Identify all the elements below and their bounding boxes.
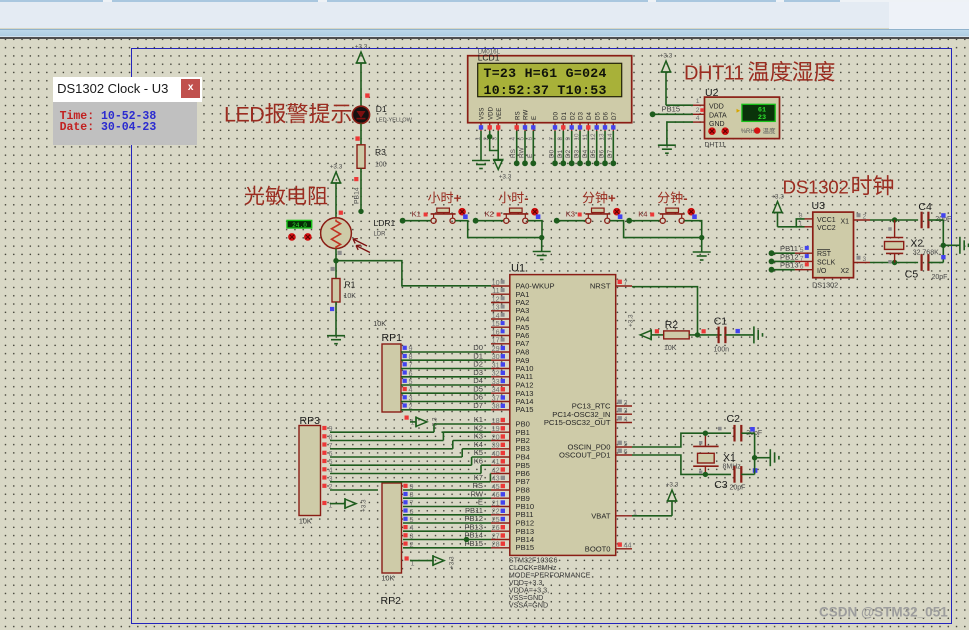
caption LED报警提示 bbox=[224, 103, 351, 127]
svg-text:VCC2: VCC2 bbox=[817, 225, 836, 232]
svg-text:RW: RW bbox=[523, 110, 530, 120]
svg-text:10:52:37 T10:53: 10:52:37 T10:53 bbox=[484, 83, 607, 98]
wire LCD VDD/VEE power bbox=[490, 131, 499, 161]
node X1 bbox=[892, 217, 897, 222]
wires K1-K7 staircase: RP3 to U1 PB0-PB7 bbox=[330, 424, 491, 490]
node LCD vdd bbox=[487, 134, 492, 139]
svg-text:PA15: PA15 bbox=[516, 405, 534, 414]
svg-text:+3.3: +3.3 bbox=[361, 499, 368, 512]
wire to ground k3k4 bbox=[701, 238, 703, 252]
wire K1 to gnd rail bbox=[455, 221, 542, 238]
node PB14 junction bbox=[358, 209, 363, 214]
schematic sheet border bbox=[131, 48, 952, 624]
LDR actuator buttons bbox=[288, 233, 312, 241]
svg-text:4: 4 bbox=[624, 414, 628, 423]
resistor R2 10K bbox=[655, 319, 689, 352]
button K4 分钟- bbox=[626, 208, 697, 224]
wire DS1302 X2 net bbox=[854, 256, 919, 263]
svg-text:LDR1: LDR1 bbox=[374, 218, 396, 228]
svg-text:D2: D2 bbox=[569, 112, 576, 120]
wires D0-D7: RP1 to U1 PA8-PA15 bbox=[401, 352, 491, 410]
svg-text:+: + bbox=[454, 190, 462, 205]
svg-text:1: 1 bbox=[329, 500, 333, 509]
svg-text:RW: RW bbox=[519, 147, 526, 158]
svg-text:VBAT: VBAT bbox=[591, 511, 611, 520]
svg-text:D5: D5 bbox=[594, 112, 601, 120]
svg-text:SCLK: SCLK bbox=[817, 260, 836, 267]
wire LCD VSS to ground bbox=[480, 131, 482, 161]
resistor R3 100 bbox=[354, 145, 387, 181]
wire OSCIN net bbox=[632, 433, 705, 447]
resistor pack RP2 bbox=[381, 482, 456, 607]
wire PB15 to DHT11 DATA bbox=[650, 105, 693, 118]
svg-text:OSCOUT_PD1: OSCOUT_PD1 bbox=[559, 451, 610, 460]
wires C2 C3 to gnd bbox=[741, 433, 770, 474]
svg-text:C4: C4 bbox=[918, 201, 932, 213]
svg-text:8: 8 bbox=[799, 212, 803, 219]
capacitor C2 20pF bbox=[718, 413, 762, 442]
resistor pack RP1 bbox=[373, 319, 438, 430]
svg-text:K1: K1 bbox=[412, 210, 421, 219]
svg-text:PB14: PB14 bbox=[353, 187, 360, 204]
ground DHT11 bbox=[658, 144, 676, 146]
svg-text:RS: RS bbox=[514, 111, 521, 120]
ground k3k4 bbox=[693, 251, 711, 253]
svg-text:RP2: RP2 bbox=[381, 595, 402, 607]
caption DHT11温度湿度 bbox=[684, 61, 835, 85]
ground DS1302 xtal bbox=[959, 237, 961, 254]
svg-text:LCD1: LCD1 bbox=[478, 53, 500, 63]
svg-text:10K: 10K bbox=[344, 293, 357, 300]
svg-text:5: 5 bbox=[800, 247, 804, 254]
capacitor C5 20pF bbox=[905, 254, 948, 281]
svg-text:D6: D6 bbox=[599, 149, 606, 158]
wire LDR to R1 and PA0 bbox=[331, 249, 492, 286]
svg-text:LDR: LDR bbox=[374, 232, 387, 238]
svg-text:+3.3: +3.3 bbox=[499, 174, 512, 181]
wire DS1302 X1 net bbox=[854, 213, 919, 220]
button K3 分钟+ bbox=[554, 208, 623, 224]
wire K2 to gnd rail bbox=[528, 221, 542, 238]
svg-text:6: 6 bbox=[800, 264, 804, 271]
ground LCD bbox=[472, 160, 490, 162]
svg-text:R1: R1 bbox=[345, 280, 356, 290]
svg-text:7: 7 bbox=[624, 278, 628, 287]
node gnd X2 bbox=[941, 243, 946, 248]
svg-text:X1: X1 bbox=[840, 218, 849, 225]
wire NRST net bbox=[632, 287, 698, 335]
svg-text:RST: RST bbox=[817, 251, 832, 258]
wire R2 to C1 bbox=[689, 329, 721, 335]
svg-text:K3: K3 bbox=[566, 210, 575, 219]
svg-text:+3.3: +3.3 bbox=[660, 53, 673, 60]
svg-text:T=23 H=61 G=024: T=23 H=61 G=024 bbox=[484, 66, 607, 81]
LCD control/data stub wires bbox=[510, 131, 616, 166]
U1 left pins PB0-PB15 bbox=[464, 415, 509, 548]
svg-text:D7: D7 bbox=[611, 112, 618, 120]
svg-text:C2: C2 bbox=[727, 413, 741, 425]
svg-text:RP1: RP1 bbox=[382, 332, 403, 344]
svg-text:E: E bbox=[531, 116, 538, 120]
wire X1 bottom to C3 bbox=[705, 473, 731, 475]
svg-text:10K: 10K bbox=[299, 517, 312, 526]
U1 left pins PA0-PA7 bbox=[491, 278, 510, 345]
wire K3 to gnd rail bbox=[610, 221, 702, 238]
svg-text:+3.3: +3.3 bbox=[628, 314, 635, 327]
svg-text:E: E bbox=[527, 154, 534, 158]
mcu U1 STM32F103C6 bbox=[509, 263, 616, 610]
svg-text:D4: D4 bbox=[582, 149, 589, 158]
ground C1 bbox=[753, 326, 755, 343]
power flag +3.3 R2 bbox=[628, 314, 664, 340]
svg-text:D5: D5 bbox=[590, 149, 597, 158]
svg-text:U1: U1 bbox=[511, 263, 525, 275]
svg-text:+3.3: +3.3 bbox=[449, 556, 456, 569]
svg-text:44: 44 bbox=[624, 541, 632, 550]
svg-text:D0: D0 bbox=[549, 149, 556, 158]
svg-text:R2: R2 bbox=[665, 319, 679, 331]
svg-text:D7: D7 bbox=[607, 149, 614, 158]
svg-text:LED: LED bbox=[224, 103, 264, 127]
svg-text:D4: D4 bbox=[586, 112, 593, 120]
svg-text:-: - bbox=[524, 190, 528, 205]
svg-text:BOOT0: BOOT0 bbox=[585, 544, 611, 553]
svg-text:6: 6 bbox=[624, 447, 628, 456]
svg-text:D1: D1 bbox=[561, 112, 568, 120]
button K2 小时- bbox=[473, 208, 541, 224]
svg-text:X2: X2 bbox=[910, 238, 923, 250]
power flag +3.3 above D1 bbox=[355, 44, 368, 107]
svg-text:100: 100 bbox=[375, 162, 387, 169]
svg-text:10K: 10K bbox=[373, 319, 386, 328]
svg-text:7: 7 bbox=[800, 255, 804, 262]
capacitor C4 20pF bbox=[918, 201, 951, 228]
svg-text:23: 23 bbox=[758, 114, 766, 122]
svg-text:DHT11: DHT11 bbox=[705, 142, 726, 149]
svg-text:C3: C3 bbox=[714, 479, 728, 491]
svg-text:NRST: NRST bbox=[590, 282, 611, 291]
ground k1k2 bbox=[533, 251, 551, 253]
node buttons gnd right bbox=[699, 235, 704, 240]
svg-text:VEE: VEE bbox=[496, 108, 503, 120]
U1 right pins bbox=[616, 278, 637, 550]
svg-text:28: 28 bbox=[492, 540, 500, 549]
svg-text:+3.3: +3.3 bbox=[355, 44, 368, 51]
svg-text:D1: D1 bbox=[376, 104, 387, 114]
U1 left pins PA8-PA15 (D0-D7) bbox=[473, 343, 510, 410]
svg-text:PC15-OSC32_OUT: PC15-OSC32_OUT bbox=[544, 418, 611, 427]
svg-text:38: 38 bbox=[492, 402, 500, 411]
svg-text:DS1302: DS1302 bbox=[812, 281, 838, 290]
svg-text:4: 4 bbox=[696, 115, 700, 122]
wire DHT11 GND bbox=[667, 122, 693, 145]
wire X1 top to C2 bbox=[705, 432, 731, 434]
svg-text:-: - bbox=[683, 190, 687, 205]
wire to ground k1k2 bbox=[541, 238, 543, 252]
svg-text:DATA: DATA bbox=[709, 113, 727, 120]
dialog DS1302 Clock - U3 bbox=[53, 77, 202, 145]
caption 分钟- bbox=[658, 190, 688, 205]
svg-text:24.0: 24.0 bbox=[292, 222, 307, 229]
svg-text:CSDN @STM32_051: CSDN @STM32_051 bbox=[819, 605, 948, 620]
svg-text:C1: C1 bbox=[714, 316, 728, 328]
node NRST RC bbox=[695, 332, 700, 337]
button K1 小时+ bbox=[400, 208, 468, 224]
crystal X1 8MHz bbox=[693, 433, 741, 474]
node buttons gnd left bbox=[539, 235, 544, 240]
led D1 LED-YELLOW bbox=[352, 93, 412, 140]
svg-text:D3: D3 bbox=[574, 149, 581, 158]
svg-text:I/O: I/O bbox=[817, 268, 827, 275]
svg-text:%RH: %RH bbox=[741, 129, 755, 135]
photoresistor LDR1 bbox=[321, 211, 396, 255]
junction on PB14 wire bbox=[464, 537, 469, 542]
rtc U3 DS1302 bbox=[799, 200, 854, 290]
svg-text:VSS: VSS bbox=[479, 108, 486, 120]
power flag +3.3 VBAT bbox=[632, 482, 679, 516]
svg-text:RS: RS bbox=[510, 149, 517, 158]
svg-text:R3: R3 bbox=[375, 147, 386, 157]
node xtal gnd bbox=[752, 455, 757, 460]
svg-text:X2: X2 bbox=[840, 268, 849, 275]
svg-text:+3.3: +3.3 bbox=[771, 193, 784, 200]
svg-text:GND: GND bbox=[709, 121, 725, 128]
resistor R1 10K bbox=[330, 279, 356, 312]
svg-text:K2: K2 bbox=[485, 210, 494, 219]
caption DS1302时钟 bbox=[783, 175, 894, 197]
capacitor C3 20pF bbox=[714, 466, 757, 491]
svg-text:10K: 10K bbox=[382, 574, 395, 583]
svg-text:100n: 100n bbox=[714, 347, 730, 354]
svg-text:VDD: VDD bbox=[487, 106, 494, 120]
svg-text:+: + bbox=[608, 190, 616, 205]
resistor pack RP3 bbox=[299, 415, 368, 526]
svg-text:DS1302: DS1302 bbox=[783, 177, 849, 198]
LCD pins 1-14 bbox=[475, 123, 616, 141]
wires RS,RW,E,PB11-PB15: RP2 to U1 PB8-PB15 bbox=[403, 490, 491, 548]
svg-text:20pF: 20pF bbox=[730, 485, 746, 492]
svg-text:D6: D6 bbox=[603, 112, 610, 120]
svg-text:PB15: PB15 bbox=[516, 543, 535, 552]
power flag +3.3 above LDR1 bbox=[330, 164, 343, 219]
ground X1 bbox=[769, 449, 771, 466]
wire OSCOUT net bbox=[632, 455, 705, 474]
wire R1 to ground bbox=[335, 302, 337, 336]
lcd LCD1 LM016L bbox=[468, 49, 632, 123]
caption 小时- bbox=[499, 190, 529, 205]
power flag +3.3 DHT11 bbox=[660, 53, 693, 106]
svg-text:8MHz: 8MHz bbox=[723, 464, 742, 471]
svg-text:C5: C5 bbox=[905, 269, 919, 281]
wires PB11 PB12 PB13 to DS1302 bbox=[769, 244, 813, 272]
wire C1 to gnd bbox=[725, 334, 754, 336]
svg-text:1: 1 bbox=[696, 98, 700, 105]
svg-text:32.768K: 32.768K bbox=[913, 250, 939, 257]
crystal X2 32.768K bbox=[885, 220, 940, 263]
svg-text:X1: X1 bbox=[723, 452, 736, 464]
svg-text:PB15: PB15 bbox=[662, 105, 681, 114]
caption 小时+ bbox=[428, 190, 462, 205]
green readout 24.0 bbox=[287, 220, 312, 228]
svg-text:2: 2 bbox=[863, 213, 867, 220]
node X1 bottom bbox=[703, 472, 708, 477]
svg-text:1: 1 bbox=[799, 220, 803, 227]
svg-text:+3.3: +3.3 bbox=[330, 164, 343, 171]
power flag +3.3 DS1302 bbox=[771, 193, 804, 227]
svg-text:D2: D2 bbox=[565, 149, 572, 158]
svg-text:+3.3: +3.3 bbox=[666, 482, 679, 489]
wire R3 to PB14 node bbox=[353, 168, 361, 211]
ground below R1 bbox=[327, 335, 345, 337]
svg-text:LED-YELLOW: LED-YELLOW bbox=[376, 118, 413, 124]
svg-text:2: 2 bbox=[696, 107, 700, 114]
wires crystal caps to gnd bbox=[928, 213, 960, 262]
wire K4 to gnd rail bbox=[684, 221, 701, 238]
svg-text:D0: D0 bbox=[553, 112, 560, 120]
svg-text:DHT11: DHT11 bbox=[684, 63, 744, 85]
svg-text:VDD: VDD bbox=[709, 104, 724, 111]
sensor U2 DHT11 bbox=[693, 87, 780, 149]
svg-text:VCC1: VCC1 bbox=[817, 217, 836, 224]
svg-text:10K: 10K bbox=[664, 345, 677, 352]
svg-text:D1: D1 bbox=[557, 149, 564, 158]
svg-text:U3: U3 bbox=[812, 200, 826, 212]
node LDR divider bbox=[333, 258, 338, 263]
power flag +3.3 down LCD bbox=[493, 160, 512, 181]
svg-text:PB13: PB13 bbox=[780, 261, 799, 270]
svg-text:1: 1 bbox=[411, 558, 415, 567]
svg-text:D3: D3 bbox=[578, 112, 585, 120]
node X2 bbox=[892, 260, 897, 265]
svg-text:VSSA=GND: VSSA=GND bbox=[509, 601, 548, 610]
svg-text:20pF: 20pF bbox=[932, 274, 948, 281]
svg-text:K4: K4 bbox=[638, 210, 647, 219]
caption 分钟+ bbox=[583, 190, 617, 205]
capacitor C1 100n bbox=[714, 316, 740, 354]
svg-text:3: 3 bbox=[863, 256, 867, 263]
caption 光敏电阻 bbox=[245, 186, 327, 205]
node X1 top bbox=[703, 431, 708, 436]
wire D1 to R3 bbox=[360, 123, 362, 145]
